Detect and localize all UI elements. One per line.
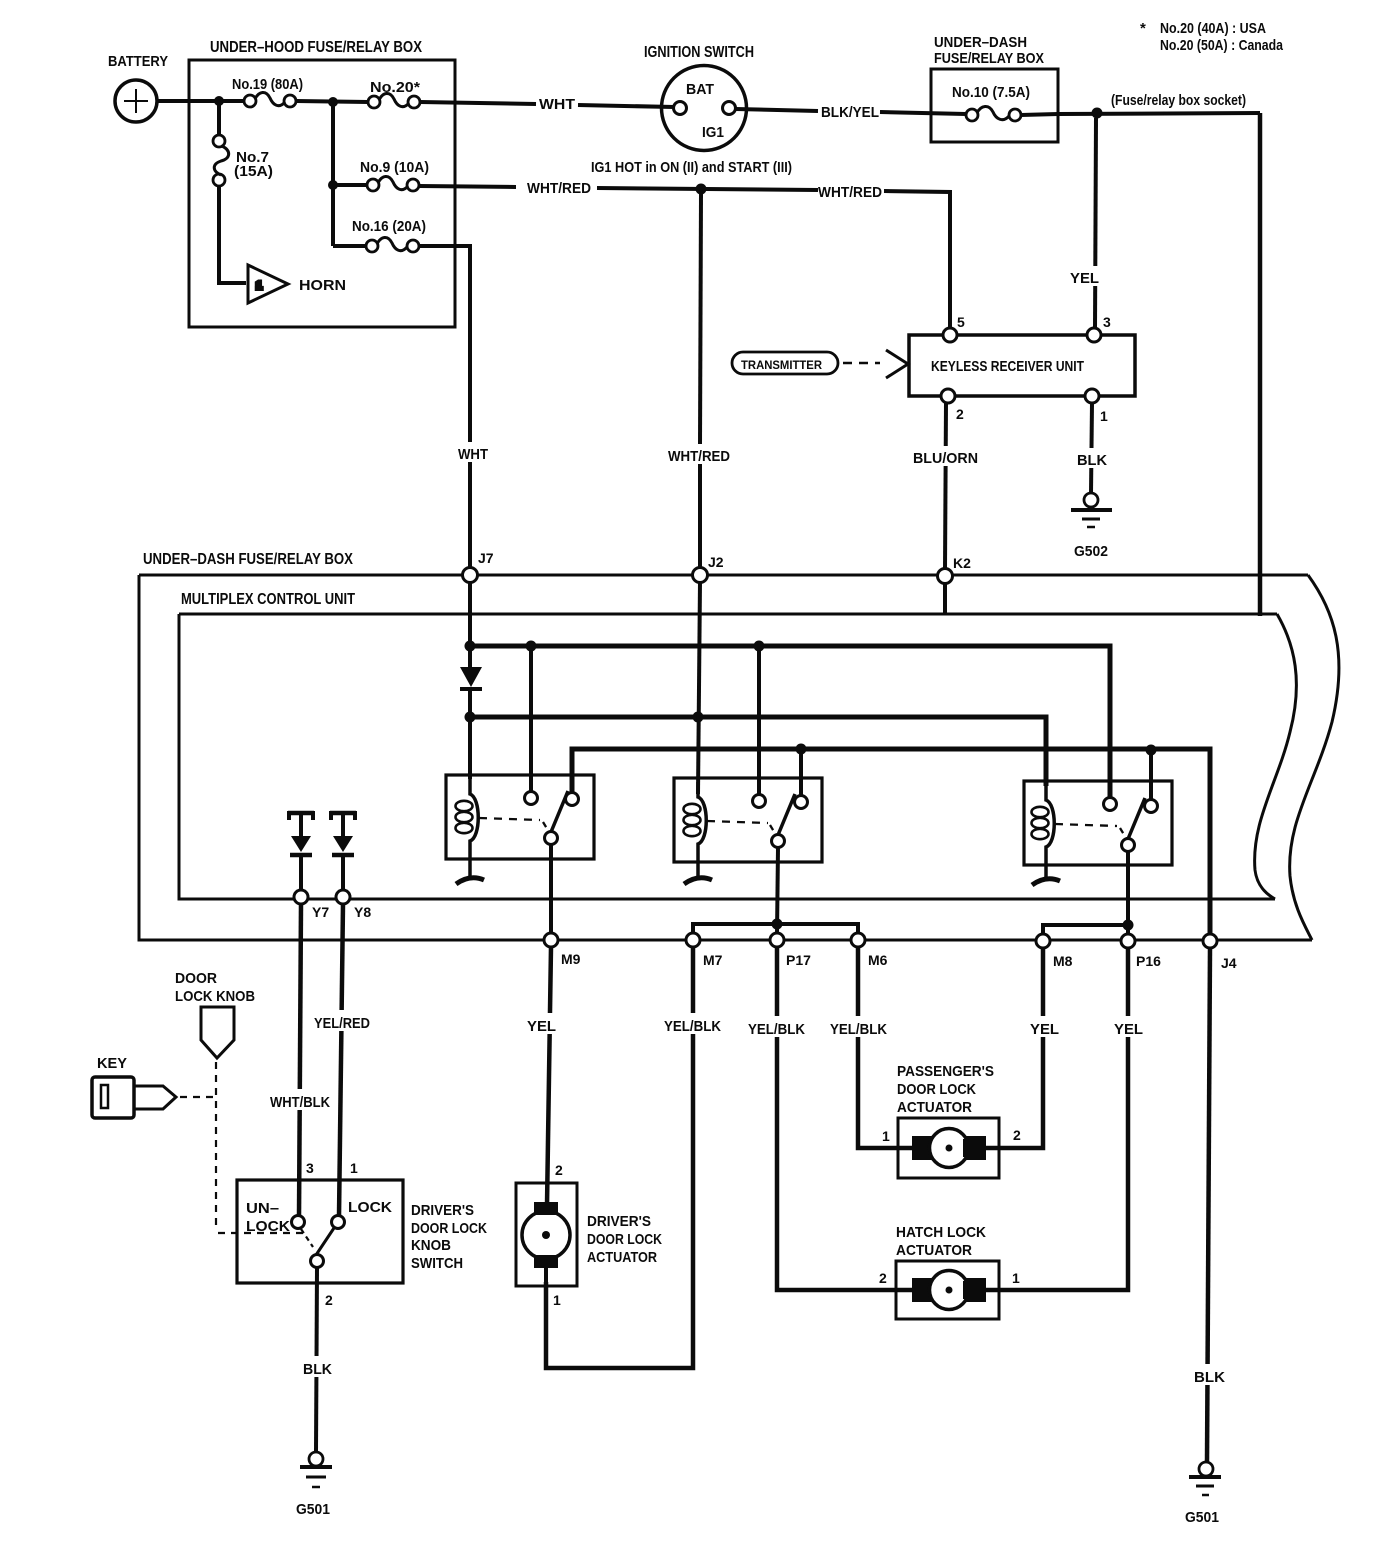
wire WHT/RED right label to keyless pin5 drop bbox=[884, 191, 950, 328]
battery bbox=[115, 80, 157, 122]
svg-text:5: 5 bbox=[957, 314, 965, 330]
wire relay2 NC riser bbox=[757, 646, 761, 794]
wire knob switch pin2 to ground bbox=[316, 1268, 317, 1452]
svg-text:G501: G501 bbox=[296, 1501, 330, 1518]
svg-text:YEL/BLK: YEL/BLK bbox=[748, 1021, 805, 1038]
dashed mechanical link key/knob to switch bbox=[180, 1096, 214, 1098]
wire M6 to passenger actuator pin1 bbox=[858, 947, 914, 1148]
svg-text:M6: M6 bbox=[868, 952, 888, 968]
relay K3 armature blade bbox=[1128, 798, 1145, 839]
wire fuse7 to horn bbox=[219, 185, 246, 283]
wire J2 down to relay2 coil bbox=[698, 582, 700, 794]
driver's door lock actuator box bbox=[516, 1183, 577, 1286]
svg-text:J7: J7 bbox=[478, 550, 494, 566]
node M7 bbox=[686, 933, 700, 947]
svg-text:2: 2 bbox=[956, 406, 964, 422]
svg-text:DOOR LOCK: DOOR LOCK bbox=[411, 1220, 487, 1237]
node P17 strap bbox=[772, 919, 783, 930]
svg-text:3: 3 bbox=[306, 1160, 314, 1176]
wire P16 to hatch actuator pin1 bbox=[982, 948, 1128, 1290]
svg-text:G502: G502 bbox=[1074, 543, 1108, 560]
wire P17 to hatch actuator pin2 bbox=[777, 947, 914, 1290]
svg-text:1: 1 bbox=[882, 1128, 890, 1144]
svg-text:KEY: KEY bbox=[97, 1055, 127, 1072]
relay K1 armature blade bbox=[551, 791, 568, 832]
svg-text:KEYLESS RECEIVER UNIT: KEYLESS RECEIVER UNIT bbox=[931, 358, 1084, 375]
wire relay2 NO riser bbox=[799, 749, 803, 795]
wire fuse9 to WHT/RED label bbox=[419, 186, 516, 187]
wire keyless pin2 down to K2 bbox=[945, 403, 946, 569]
svg-text:DOOR LOCK: DOOR LOCK bbox=[897, 1081, 976, 1098]
door lock knob symbol bbox=[201, 1007, 234, 1058]
under-hood fuse/relay box bbox=[189, 60, 455, 327]
wire fuse10 to socket corner bbox=[1021, 113, 1260, 115]
diode D3 (Y8 stub) bbox=[330, 811, 356, 816]
fuse No.16 (20A) bbox=[366, 240, 378, 252]
label YEL (P16 wire) bbox=[1110, 1016, 1146, 1037]
svg-text:DRIVER'S: DRIVER'S bbox=[411, 1202, 474, 1219]
label WHT/BLK bbox=[266, 1089, 334, 1110]
wire socket node down to keyless pin3 (YEL) bbox=[1095, 118, 1096, 328]
fuse No.20 bbox=[368, 96, 380, 108]
svg-text:2: 2 bbox=[325, 1292, 333, 1308]
ignition switch bbox=[662, 66, 747, 151]
svg-text:WHT/RED: WHT/RED bbox=[527, 180, 591, 197]
svg-text:YEL/BLK: YEL/BLK bbox=[830, 1021, 887, 1038]
svg-text:WHT/RED: WHT/RED bbox=[818, 184, 882, 201]
wire socket corner down to multiplex unit bbox=[1258, 113, 1263, 616]
svg-text:PASSENGER'S: PASSENGER'S bbox=[897, 1063, 994, 1080]
under-dash fuse/relay box (large) bbox=[1290, 575, 1339, 940]
svg-text:LOCK: LOCK bbox=[348, 1199, 392, 1216]
relay K3 coil return stub bbox=[1032, 879, 1060, 885]
driver's door lock knob switch box bbox=[237, 1180, 403, 1283]
svg-text:WHT/RED: WHT/RED bbox=[668, 448, 730, 465]
relay K2u coil return stub bbox=[684, 878, 712, 884]
wire WHT label to ignition switch bbox=[578, 105, 674, 107]
svg-text:WHT/BLK: WHT/BLK bbox=[270, 1094, 330, 1111]
bus B wire (coil rail) bbox=[470, 717, 1046, 786]
relay K3 coil bbox=[1046, 785, 1054, 878]
svg-text:YEL: YEL bbox=[527, 1018, 556, 1035]
keyless receiver unit bbox=[909, 335, 1135, 396]
node J7 bbox=[463, 568, 478, 583]
relay K3 actuation dashes bbox=[1055, 824, 1117, 826]
node M9 bbox=[544, 933, 558, 947]
relay K1 coil return stub bbox=[456, 878, 484, 884]
ground G502 bbox=[1084, 493, 1098, 507]
label WHT/RED vertical bbox=[664, 444, 736, 464]
relay K2u actuation dashes bbox=[707, 821, 768, 823]
driver's actuator motor bbox=[534, 1202, 558, 1220]
diode D1 bbox=[460, 667, 482, 687]
label BLK (J4 ground) bbox=[1189, 1364, 1229, 1385]
svg-text:BATTERY: BATTERY bbox=[108, 53, 168, 70]
wire relay1 common to M9 bbox=[549, 845, 553, 934]
ground G501 (right) bbox=[1199, 1462, 1213, 1476]
svg-text:P16: P16 bbox=[1136, 953, 1161, 969]
wire battery to fuse box bbox=[157, 99, 245, 103]
svg-text:No.20 (50A) : Canada: No.20 (50A) : Canada bbox=[1160, 37, 1284, 54]
label YEL/BLK (P17 wire) bbox=[744, 1016, 808, 1037]
relay K2u contacts bbox=[753, 795, 766, 808]
wire fuse19 to fuse20 bbox=[296, 101, 368, 102]
label YEL (socket drop) bbox=[1066, 266, 1102, 286]
wire J4 to ground bbox=[1207, 948, 1210, 1462]
wire Y7 to knob switch pin3 bbox=[299, 904, 301, 1216]
svg-text:2: 2 bbox=[879, 1270, 887, 1286]
ground G501 (left) bbox=[309, 1452, 323, 1466]
node fuse20 branch junction bbox=[328, 97, 338, 107]
svg-text:UNDER–HOOD FUSE/RELAY BOX: UNDER–HOOD FUSE/RELAY BOX bbox=[210, 39, 422, 56]
svg-text:IG1: IG1 bbox=[702, 124, 724, 141]
svg-text:1: 1 bbox=[1100, 408, 1108, 424]
hatch lock actuator box bbox=[896, 1261, 999, 1319]
svg-text:Y8: Y8 bbox=[354, 904, 371, 920]
wire diode to bus B bbox=[468, 689, 472, 779]
relay K3 contacts bbox=[1104, 798, 1117, 811]
svg-text:IGNITION SWITCH: IGNITION SWITCH bbox=[644, 44, 754, 61]
svg-text:BLK/YEL: BLK/YEL bbox=[821, 104, 879, 121]
svg-text:DOOR LOCK: DOOR LOCK bbox=[587, 1231, 662, 1248]
svg-text:1: 1 bbox=[350, 1160, 358, 1176]
node relay1 NC riser bbox=[526, 641, 537, 652]
svg-text:J2: J2 bbox=[708, 554, 724, 570]
node ignition IG1 branch J2 bbox=[696, 184, 707, 195]
strap wire M7-P17-M6 bbox=[693, 924, 858, 934]
fuse No.19 (80A) bbox=[244, 95, 256, 107]
svg-text:ACTUATOR: ACTUATOR bbox=[897, 1099, 972, 1116]
svg-text:WHT: WHT bbox=[458, 446, 488, 463]
passenger's actuator motor bbox=[912, 1136, 932, 1160]
svg-text:2: 2 bbox=[555, 1162, 563, 1178]
wire J7 down to bus A bbox=[468, 582, 472, 667]
node bus B at diode bbox=[465, 712, 476, 723]
svg-text:HORN: HORN bbox=[299, 277, 346, 294]
relay K2u armature blade bbox=[778, 794, 795, 835]
wire relay3 common to P16 bbox=[1126, 852, 1130, 935]
svg-text:No.20*: No.20* bbox=[370, 79, 420, 96]
svg-text:M7: M7 bbox=[703, 952, 723, 968]
node P17 bbox=[770, 933, 784, 947]
svg-text:M8: M8 bbox=[1053, 953, 1073, 969]
wire keyless pin1 down to ground bbox=[1091, 403, 1092, 493]
node relay3 NO riser bbox=[1146, 745, 1157, 756]
svg-text:SWITCH: SWITCH bbox=[411, 1255, 463, 1272]
svg-text:KNOB: KNOB bbox=[411, 1237, 451, 1254]
svg-text:BLU/ORN: BLU/ORN bbox=[913, 450, 978, 467]
svg-text:1: 1 bbox=[553, 1292, 561, 1308]
svg-text:LOCK KNOB: LOCK KNOB bbox=[175, 988, 255, 1005]
node Y7 bbox=[294, 890, 308, 904]
relay K2u box bbox=[674, 778, 822, 862]
wire Y8 to knob switch pin1 bbox=[339, 904, 343, 1216]
svg-text:ACTUATOR: ACTUATOR bbox=[896, 1242, 972, 1259]
svg-text:3: 3 bbox=[1103, 314, 1111, 330]
wire WHT/RED label to J2 drop bbox=[597, 188, 818, 190]
svg-text:1: 1 bbox=[1012, 1270, 1020, 1286]
horn U1 bbox=[248, 265, 288, 303]
label YEL/BLK (M7 wire) bbox=[660, 1013, 724, 1034]
passenger's door lock actuator box bbox=[898, 1118, 999, 1178]
fuse No.10 (7.5A) bbox=[966, 109, 978, 121]
svg-text:YEL: YEL bbox=[1030, 1021, 1059, 1038]
svg-text:UNDER–DASH FUSE/RELAY BOX: UNDER–DASH FUSE/RELAY BOX bbox=[143, 551, 353, 568]
svg-text:(Fuse/relay box socket): (Fuse/relay box socket) bbox=[1111, 92, 1246, 109]
node bus B at J2 line bbox=[693, 712, 704, 723]
label YEL/BLK (M6 wire) bbox=[826, 1016, 890, 1037]
svg-text:TRANSMITTER: TRANSMITTER bbox=[741, 360, 823, 372]
svg-text:YEL/BLK: YEL/BLK bbox=[664, 1018, 721, 1035]
fuse No.7 (15A) vertical bbox=[213, 135, 225, 147]
svg-text:J4: J4 bbox=[1221, 955, 1237, 971]
svg-text:1: 1 bbox=[256, 280, 262, 292]
svg-text:UN–: UN– bbox=[246, 1200, 279, 1217]
relay K1 coil bbox=[470, 779, 478, 877]
wire M9 to driver's actuator pin2 bbox=[547, 947, 551, 1205]
node J2 bbox=[693, 568, 708, 583]
dashed arrow transmitter to keyless unit bbox=[843, 362, 880, 365]
node relay2 NC riser bbox=[754, 641, 765, 652]
label BLK (knob switch ground) bbox=[297, 1356, 337, 1377]
knob switch contacts bbox=[292, 1216, 305, 1229]
svg-text:No.10 (7.5A): No.10 (7.5A) bbox=[952, 84, 1030, 101]
wire BLK/YEL label to fuse No.10 bbox=[880, 112, 966, 114]
relay K2u coil bbox=[698, 782, 706, 877]
wire to fuse No.16 bbox=[333, 244, 366, 248]
wire M8 to passenger actuator pin2 bbox=[982, 948, 1043, 1148]
svg-text:BLK: BLK bbox=[1077, 452, 1107, 469]
svg-text:2: 2 bbox=[1013, 1127, 1021, 1143]
wire No.19 node down to fuse No.7 bbox=[217, 101, 221, 136]
wire K2 into multiplex unit bbox=[943, 583, 947, 614]
label YEL (M8 wire) bbox=[1026, 1016, 1062, 1037]
label YEL (M9 wire) bbox=[522, 1013, 558, 1034]
under-dash fuse/relay box (top) bbox=[931, 69, 1058, 142]
node P16 bbox=[1121, 934, 1135, 948]
wire ignition to BLK/YEL label bbox=[736, 109, 818, 111]
diode D2 (Y7 stub) bbox=[288, 811, 314, 816]
wire J2 riser above box bbox=[700, 194, 701, 445]
svg-text:YEL: YEL bbox=[1114, 1021, 1143, 1038]
hatch actuator motor bbox=[912, 1278, 932, 1302]
wire node to fuse9 bbox=[333, 183, 367, 187]
svg-text:YEL: YEL bbox=[1070, 270, 1099, 287]
svg-text:No.19 (80A): No.19 (80A) bbox=[232, 76, 303, 93]
svg-text:Y7: Y7 bbox=[312, 904, 329, 920]
svg-text:No.20 (40A) : USA: No.20 (40A) : USA bbox=[1160, 20, 1266, 37]
svg-text:BAT: BAT bbox=[686, 81, 714, 98]
node fuse9 branch bbox=[328, 180, 338, 190]
node J4 bbox=[1203, 934, 1217, 948]
node relay2 NO riser bbox=[796, 744, 807, 755]
node fuse/relay box socket bbox=[1092, 108, 1103, 119]
svg-text:ACTUATOR: ACTUATOR bbox=[587, 1249, 657, 1266]
knob switch blade bbox=[316, 1228, 334, 1255]
wire relay2 common to P17 bbox=[777, 848, 778, 934]
svg-text:M9: M9 bbox=[561, 951, 581, 967]
svg-text:UNDER–DASH: UNDER–DASH bbox=[934, 34, 1027, 51]
relay K1 contacts bbox=[525, 792, 538, 805]
svg-text:*: * bbox=[1140, 20, 1146, 37]
node K2 bbox=[938, 569, 953, 584]
label BLK (keyless) bbox=[1073, 448, 1111, 468]
svg-text:WHT: WHT bbox=[539, 96, 575, 113]
svg-text:MULTIPLEX CONTROL UNIT: MULTIPLEX CONTROL UNIT bbox=[181, 591, 355, 608]
svg-text:YEL/RED: YEL/RED bbox=[314, 1015, 370, 1032]
label YEL/RED bbox=[310, 1010, 376, 1031]
transmitter bbox=[732, 352, 838, 374]
wire relay3 NO riser bbox=[1149, 750, 1153, 799]
svg-text:BLK: BLK bbox=[303, 1361, 332, 1378]
label BLU/ORN bbox=[909, 446, 981, 466]
svg-text:LOCK: LOCK bbox=[246, 1218, 290, 1235]
relay K1 actuation dashes bbox=[479, 818, 540, 820]
svg-text:DRIVER'S: DRIVER'S bbox=[587, 1213, 651, 1230]
svg-text:DOOR: DOOR bbox=[175, 970, 217, 987]
relay K3 box bbox=[1024, 781, 1172, 865]
svg-text:K2: K2 bbox=[953, 555, 971, 571]
node Y8 bbox=[336, 890, 350, 904]
wire fuse20 to WHT label bbox=[420, 102, 536, 104]
svg-text:IG1 HOT in ON (II) and START (: IG1 HOT in ON (II) and START (III) bbox=[591, 159, 792, 176]
multiplex control unit box bbox=[1255, 614, 1297, 899]
key symbol bbox=[92, 1077, 134, 1118]
node battery feed junction bbox=[214, 96, 224, 106]
wire fuse16 to J7 drop (WHT) bbox=[419, 246, 470, 444]
svg-text:BLK: BLK bbox=[1194, 1369, 1225, 1386]
strap wire M8-P16 bbox=[1043, 925, 1128, 934]
svg-text:FUSE/RELAY BOX: FUSE/RELAY BOX bbox=[934, 50, 1044, 67]
wire M7 to driver's actuator pin1 (U path) bbox=[546, 947, 693, 1368]
node M6 bbox=[851, 933, 865, 947]
wire fuse20-node down to fuse No.9 bbox=[331, 102, 335, 246]
svg-text:HATCH LOCK: HATCH LOCK bbox=[896, 1224, 986, 1241]
label WHT (J7 drop) bbox=[454, 442, 490, 462]
svg-text:No.16 (20A): No.16 (20A) bbox=[352, 218, 426, 235]
bus A wire (lock power rail) bbox=[470, 646, 1110, 797]
svg-text:P17: P17 bbox=[786, 952, 811, 968]
fuse No.9 (10A) bbox=[367, 179, 379, 191]
wire driver's actuator pin1 stub bbox=[544, 1262, 548, 1286]
svg-text:G501: G501 bbox=[1185, 1509, 1219, 1526]
node bus A at J7 line bbox=[465, 641, 476, 652]
svg-text:(15A): (15A) bbox=[234, 163, 273, 180]
svg-text:No.9 (10A): No.9 (10A) bbox=[360, 159, 429, 176]
node M8 bbox=[1036, 934, 1050, 948]
wire relay1 NC riser bbox=[529, 646, 533, 791]
bus C wire (unlock rail to J4) bbox=[572, 749, 1210, 934]
node P16 strap bbox=[1123, 920, 1134, 931]
relay K1 box bbox=[446, 775, 594, 859]
